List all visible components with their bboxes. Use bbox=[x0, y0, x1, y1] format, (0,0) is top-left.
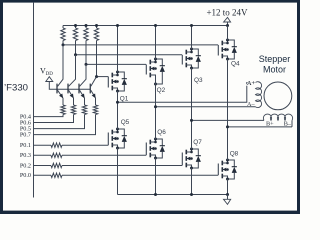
svg-text:A+: A+ bbox=[247, 80, 255, 87]
wire Q8 source to ground bus bbox=[227, 179, 229, 195]
motor winding A coil bbox=[256, 82, 262, 108]
microcontroller 'F330 boundary edge bbox=[33, 3, 35, 198]
motor winding B coil bbox=[263, 114, 292, 120]
svg-text:P0.1: P0.1 bbox=[20, 142, 31, 149]
pull-up resistor R3 bbox=[85, 26, 87, 29]
node / wire Q2 gate wire bbox=[86, 63, 146, 65]
svg-text:Stepper: Stepper bbox=[259, 54, 291, 64]
svg-text:Motor: Motor bbox=[263, 64, 286, 74]
wire P0.4 line bbox=[34, 115, 64, 117]
wire Q1 source to Q5 drain (node A+) bbox=[117, 91, 119, 129]
svg-text:Q5: Q5 bbox=[121, 119, 130, 126]
svg-text:’F330: ’F330 bbox=[4, 82, 28, 93]
MOSFET Q6 bbox=[145, 143, 147, 156]
freewheel diode of Q3 bbox=[192, 49, 199, 56]
node / wire Q3 gate wire bbox=[76, 54, 183, 56]
svg-text:DD: DD bbox=[46, 72, 54, 77]
transistor level-shifter BJT4 bbox=[89, 84, 91, 94]
wire P0.6 line bbox=[34, 115, 74, 123]
junction on rail bbox=[95, 24, 98, 27]
freewheel diode of Q1 bbox=[118, 72, 125, 79]
freewheel diode of Q8 bbox=[228, 160, 235, 167]
pull-up resistor R1 bbox=[62, 26, 64, 29]
MOSFET Q4 bbox=[217, 45, 219, 56]
freewheel diode of Q7 bbox=[192, 149, 199, 156]
svg-text:B+: B+ bbox=[266, 120, 274, 127]
transistor level-shifter BJT2 bbox=[67, 84, 69, 94]
stepper motor body bbox=[264, 82, 292, 110]
svg-text:P0.2: P0.2 bbox=[20, 162, 31, 169]
wire Q2 source to Q6 drain (node A-) bbox=[155, 78, 157, 139]
MOSFET Q5 bbox=[107, 133, 109, 146]
ground symbol bbox=[227, 195, 229, 200]
wire/resistor P0.2 -> Q7 gate with series resistor bbox=[34, 165, 52, 167]
svg-text:+12 to 24V: +12 to 24V bbox=[206, 7, 248, 17]
MOSFET Q3 bbox=[181, 55, 183, 65]
wire/resistor P0.3 -> Q6 gate with series resistor bbox=[34, 154, 52, 156]
svg-text:Q1: Q1 bbox=[120, 96, 129, 103]
junction on rail bbox=[85, 24, 88, 27]
MOSFET Q8 bbox=[217, 164, 219, 176]
node / wire Q1 gate wire bbox=[97, 76, 109, 78]
node A+ wire to motor winding bbox=[118, 83, 256, 103]
transistor level-shifter BJT3 bbox=[78, 84, 80, 94]
emitter resistor RE1 bbox=[62, 98, 64, 105]
+V supply rail wire bbox=[63, 25, 228, 27]
svg-text:P0.7: P0.7 bbox=[20, 132, 31, 139]
wire Q4 drain to rail bbox=[227, 26, 229, 41]
wire P0.5 line bbox=[34, 115, 85, 129]
wire P0.7 line bbox=[34, 115, 96, 135]
freewheel diode of Q5 bbox=[118, 129, 125, 136]
node / wire Q4 gate wire bbox=[63, 44, 218, 46]
svg-text:Q2: Q2 bbox=[157, 87, 166, 94]
emitter resistor RE3 bbox=[84, 98, 86, 105]
svg-text:A–: A– bbox=[247, 101, 255, 108]
pull-up resistor R2 bbox=[75, 26, 77, 29]
svg-text:Q3: Q3 bbox=[194, 77, 203, 84]
MOSFET Q2 bbox=[145, 64, 147, 74]
freewheel diode of Q6 bbox=[156, 139, 163, 146]
freewheel diode of Q2 bbox=[156, 59, 163, 66]
wire Q3 drain to rail bbox=[191, 26, 193, 50]
emitter resistor RE4 bbox=[95, 98, 97, 105]
svg-text:Q4: Q4 bbox=[231, 61, 240, 68]
MOSFET Q7 bbox=[181, 153, 183, 166]
wire Q2 drain to rail bbox=[155, 26, 157, 60]
node B+ wire to motor winding bbox=[192, 119, 265, 121]
svg-text:Q6: Q6 bbox=[157, 129, 166, 136]
pull-up resistor R4 bbox=[96, 26, 98, 29]
wire Q3 source to Q7 drain (node B+) bbox=[191, 68, 193, 149]
junction supply stem bbox=[226, 24, 229, 27]
junction on rail bbox=[74, 24, 77, 27]
border frame bbox=[0, 0, 300, 3]
transistor level-shifter BJT1 bbox=[56, 84, 58, 94]
emitter resistor RE2 bbox=[73, 98, 75, 105]
wire Q1 drain to rail bbox=[117, 26, 119, 73]
wire Q6 source to ground bus bbox=[155, 158, 157, 195]
wire Q4 source to Q8 drain (node B-) bbox=[227, 59, 229, 160]
ground bus wire bbox=[118, 194, 228, 196]
wire Q7 source to ground bus bbox=[191, 168, 193, 195]
VDD supply symbol bbox=[49, 81, 90, 89]
wire/resistor P0.1 -> Q5 gate with series resistor bbox=[34, 144, 52, 146]
svg-text:P0.3: P0.3 bbox=[20, 152, 31, 159]
supply symbol +12 to 24V bbox=[227, 22, 229, 26]
node A- wire to motor winding bbox=[156, 106, 256, 108]
freewheel diode of Q4 bbox=[228, 40, 235, 47]
svg-text:B–: B– bbox=[284, 120, 292, 127]
node B- wire to motor winding bbox=[228, 126, 293, 128]
wire Q5 source to ground bus bbox=[117, 148, 119, 195]
svg-text:Q8: Q8 bbox=[230, 151, 239, 158]
svg-text:P0.0: P0.0 bbox=[20, 172, 31, 179]
MOSFET Q1 bbox=[107, 77, 109, 88]
svg-text:Q7: Q7 bbox=[193, 139, 202, 146]
wire/resistor P0.0 -> Q8 gate with series resistor bbox=[34, 174, 52, 176]
